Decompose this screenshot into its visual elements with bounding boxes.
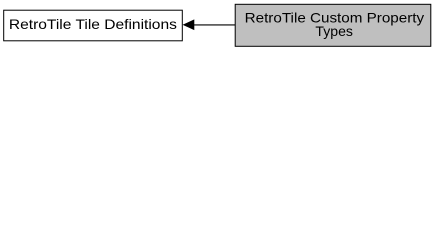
node box: RetroTile Tile Definitions — [4, 10, 183, 41]
edge wire: shaft from current node to definitions node — [193, 24, 235, 26]
svg-text:RetroTile Tile Definitions: RetroTile Tile Definitions — [9, 16, 177, 32]
node box: RetroTile Custom Property Types (current node, grey fill) — [235, 4, 431, 46]
svg-text:Types: Types — [315, 23, 353, 39]
background — [0, 0, 436, 51]
edge arrowhead pointing left — [184, 20, 194, 29]
